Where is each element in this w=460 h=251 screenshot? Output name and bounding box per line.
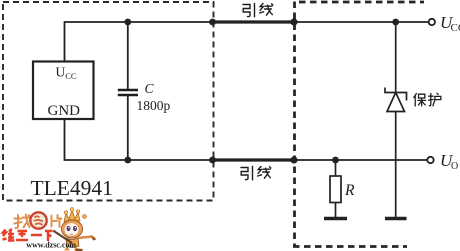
dashed box ECU module (right) (293, 2, 424, 247)
node junction sensor pin top (209, 19, 216, 26)
svg-text:GND: GND (48, 103, 81, 119)
svg-text:1800p: 1800p (137, 98, 171, 113)
lead wire top (thick) (212, 20, 295, 23)
capacitor C1 wires (127, 22, 129, 160)
ground for zener (385, 217, 407, 220)
watermark mascot (51, 208, 97, 251)
svg-text:CC: CC (451, 22, 460, 34)
resistor R wires (335, 160, 337, 218)
svg-text:www.dzsc.com: www.dzsc.com (26, 241, 76, 250)
svg-text:TLE4941: TLE4941 (31, 176, 113, 200)
sensor IC U1 box (33, 62, 94, 120)
watermark text 维库一下 (3, 229, 52, 241)
zener diode branch wire (395, 22, 397, 218)
wire bottom from sensor box to output (65, 120, 428, 160)
node junction capacitor bottom (124, 157, 131, 164)
watermark logo dzsc (3, 208, 97, 251)
svg-text:O: O (451, 161, 458, 172)
terminal Uo (427, 157, 433, 163)
node junction ECU pin bottom (290, 156, 297, 163)
ground for resistor (324, 217, 347, 220)
label C value 1800p (137, 81, 171, 113)
wire top from sensor box to supply (65, 22, 429, 62)
watermark char 片 (52, 215, 62, 227)
svg-text:C: C (145, 81, 155, 96)
watermark char 找 (15, 215, 30, 229)
label lead wire bottom 引线 (241, 167, 271, 180)
node junction sensor pin bottom (209, 157, 216, 164)
svg-text:R: R (344, 182, 355, 199)
dashed box sensor module (left) (3, 2, 214, 201)
terminal Ucc (429, 19, 435, 25)
node junction ECU pin top (290, 18, 297, 25)
capacitor C1 plates (118, 90, 138, 95)
node junction resistor top (332, 157, 339, 164)
node junction capacitor top (124, 19, 131, 26)
label lead wire top 引线 (243, 4, 273, 17)
zener diode D1 (385, 88, 407, 112)
node junction zener top (392, 19, 399, 26)
lead wire bottom (thick) (212, 158, 295, 161)
resistor R body (330, 176, 341, 203)
label protection 保护 (414, 93, 441, 106)
watermark seal circle (30, 212, 46, 228)
